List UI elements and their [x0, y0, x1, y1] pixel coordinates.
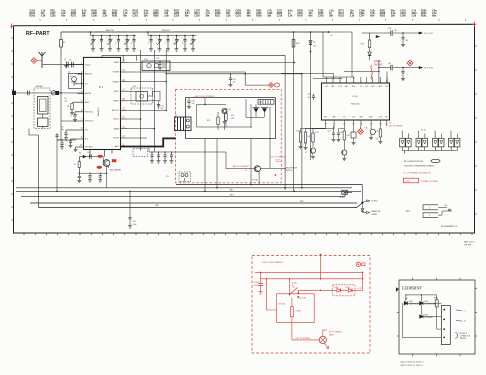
red test diamond right channel	[407, 60, 413, 66]
wire vertical x301.9	[301, 74, 303, 188]
red lamp V2301	[319, 336, 326, 343]
stereo decoder option dashed enclosure (red)	[175, 89, 281, 183]
wire right out	[393, 67, 419, 69]
resistor R500	[435, 300, 438, 307]
transistor Q6 muting	[254, 166, 260, 172]
left decoupling cluster C12 C13	[56, 133, 58, 140]
transistor Q3	[222, 108, 227, 113]
tuning group FM rail	[148, 35, 197, 37]
connector P1 bracket A	[423, 205, 438, 210]
wire AM box drop	[29, 129, 39, 136]
diode D2 on base rail	[83, 155, 86, 158]
capacitor C1 antenna coupling	[66, 62, 68, 68]
component cluster L5	[353, 126, 355, 132]
IC1 left pin stubs and red pin numbers	[78, 64, 84, 66]
transistor Q11	[342, 150, 347, 155]
electrolytic C47 right out	[384, 67, 391, 69]
LEDPRINT frame tick marks	[412, 278, 414, 280]
red ground arrow below lamp	[325, 344, 329, 349]
wire fmif runs	[127, 100, 161, 102]
wire agc2 run	[127, 118, 141, 120]
red wire second rail	[261, 278, 363, 280]
wire decoder drops to bus	[204, 139, 206, 192]
resistor R30	[301, 126, 326, 132]
wire afout run	[127, 109, 167, 111]
wire drops to IF can	[122, 55, 124, 61]
wire net fmmix	[127, 81, 167, 83]
resistor R7	[78, 157, 80, 162]
svg-text:V501: V501	[424, 301, 428, 303]
wire net vref run	[127, 62, 295, 64]
red inner box	[277, 294, 315, 323]
wire vertical feed x323	[322, 32, 324, 77]
svg-text:SWITCH: SWITCH	[460, 338, 467, 340]
wire decoder internal rail	[197, 104, 227, 106]
arrow output right	[362, 211, 369, 213]
ferrite bead FB1	[56, 91, 60, 95]
wire IC1 bottom pin stubs	[89, 150, 91, 157]
capacitor C2 on antenna line	[27, 91, 29, 96]
resistor R12	[225, 113, 227, 121]
red test diamond below IC2	[358, 129, 364, 135]
wire Q2 emitter to bus	[106, 166, 108, 187]
connector X500 pins	[443, 309, 445, 311]
transistor Q2 AM driver	[103, 160, 110, 167]
arrow output up	[362, 200, 370, 203]
connector annotation B	[456, 319, 462, 322]
wire under-IC2 links	[313, 128, 326, 130]
wire qdet through filter	[127, 90, 137, 92]
capacitor C35 below R7	[78, 175, 81, 177]
tuning group AM rail	[91, 35, 137, 37]
wire right-out riser x378.9	[379, 67, 384, 69]
capacitor C7 at pin6	[75, 111, 78, 113]
red switch feed	[289, 279, 291, 295]
IF coil can L4	[142, 61, 170, 71]
capacitor C15	[89, 173, 91, 175]
red voltage key box	[403, 178, 418, 183]
LED V500	[404, 302, 407, 306]
capacitor C16	[99, 173, 101, 175]
wire fuse feed	[60, 57, 62, 93]
wire +B supply bus	[61, 31, 329, 33]
red diode V2304	[348, 288, 352, 292]
node mixer junction	[244, 73, 246, 75]
svg-text:MODEL &: MODEL &	[460, 333, 468, 335]
red voltage box	[112, 159, 117, 162]
svg-text:CONNECTOR: CONNECTOR	[460, 336, 471, 338]
frame right tick marks	[475, 45, 477, 47]
wire pin2 to oscillator box	[78, 73, 82, 75]
thick AF signal bus	[121, 138, 177, 146]
zener D5	[309, 41, 312, 45]
resistor R20	[292, 40, 295, 48]
IC2 bottom pin stubs and red pin numbers	[325, 120, 327, 126]
red jumper wire	[371, 65, 373, 80]
wire x378.9 and x387 to IC2	[378, 68, 380, 83]
wire bus line 4	[21, 192, 352, 196]
vertical riser x140.6	[140, 50, 142, 151]
connector pad left	[12, 91, 16, 95]
svg-text:+ 1: + 1	[463, 310, 466, 312]
capacitor C46 to ground	[402, 33, 404, 38]
wire LF left feed	[344, 57, 379, 72]
LEDPRINT sub-sheet frame	[399, 280, 475, 354]
svg-text:LEDPRINT: LEDPRINT	[402, 286, 423, 291]
wire left riser	[38, 135, 40, 207]
wire bus line 5	[30, 202, 357, 204]
capacitor C20 under mixer wire	[230, 74, 232, 78]
wire riser x57	[56, 140, 58, 191]
vertical riser x166.2	[165, 50, 167, 110]
svg-text:R500: R500	[434, 298, 438, 300]
vertical riser x154.4	[153, 50, 155, 152]
coil L2	[38, 118, 49, 127]
connector bracket note	[455, 333, 457, 339]
pilot coil L3	[258, 100, 274, 105]
red wire entry drop	[320, 255, 322, 279]
red wire top rail	[255, 271, 363, 273]
wire lower left rail	[79, 172, 106, 174]
coil L1	[38, 97, 49, 115]
capacitor C5 at pin1	[70, 64, 78, 66]
connector X500 body	[441, 306, 450, 345]
transistor Q4	[254, 109, 258, 113]
red voltage blob 2	[97, 166, 102, 169]
dashed input component box (left edge)	[179, 172, 191, 182]
capacitor C30	[224, 114, 226, 122]
red switch S2301	[271, 278, 288, 280]
red corner registration mark top-left	[10, 25, 13, 27]
red wire diode rail	[321, 289, 337, 291]
diode D8	[361, 209, 364, 212]
wire FM group feed	[147, 32, 149, 36]
frame left tick marks	[11, 37, 13, 39]
wire vertical feed x293.5	[293, 32, 295, 191]
op-amp IC2 stereo decoder chip body	[322, 83, 390, 120]
red wire antenna test link	[37, 60, 42, 62]
decoder inner shield rectangle	[186, 98, 276, 139]
wire bus line 1	[176, 184, 362, 186]
node main output junction	[361, 202, 363, 204]
wire pin4 from AM antenna line	[83, 93, 84, 94]
red capacitor C2302	[260, 272, 262, 283]
wire left-out feed riser	[370, 33, 384, 40]
wire pin10 ground stub	[76, 146, 78, 148]
wire right-out feed	[362, 32, 384, 68]
main schematic sheet frame	[14, 24, 475, 233]
service option dashed enclosure (red)	[252, 256, 370, 354]
bus junction dots	[204, 191, 206, 193]
transformer T1	[175, 117, 192, 131]
wire pin7 long link	[61, 120, 78, 122]
wire L1 to L2	[42, 114, 44, 118]
wire amin run	[127, 128, 155, 130]
resistor R32	[312, 129, 314, 134]
wire bus line 2	[16, 187, 352, 189]
svg-text:ROOD/RED: ROOD/RED	[424, 317, 433, 319]
capacitor C50 C51	[333, 126, 335, 133]
transistor Q10	[310, 148, 315, 153]
wire vertical feed x310.5	[310, 32, 312, 160]
wire AM antenna line	[14, 92, 84, 94]
op-amp IC1 TDA4500 tuner/IF chip body	[84, 57, 121, 149]
capacitor C34 on base rail	[88, 154, 90, 158]
svg-text:V500: V500	[409, 301, 413, 303]
resistor R3 at pin5	[72, 101, 78, 103]
wire left out	[393, 32, 419, 34]
trimmer CT1	[51, 91, 55, 95]
wire array common rail	[402, 150, 457, 152]
resistor R31	[306, 126, 335, 132]
LED V502	[420, 315, 423, 319]
node J1 junction	[328, 31, 330, 33]
connector annotation +1	[456, 309, 462, 312]
IC1 right pin stubs and red pin numbers	[121, 62, 127, 64]
resistor R34	[379, 126, 381, 129]
dashed component outline below IC1	[133, 149, 148, 157]
wire bus line 6	[39, 203, 363, 208]
table column tick marks	[39, 19, 41, 21]
capacitor C9 at pin9	[71, 138, 78, 140]
IC2 top pin stubs and red pin numbers	[326, 77, 328, 83]
red resistor R2302	[291, 298, 293, 307]
capacitor C29 decoder input	[188, 98, 190, 101]
wire Q2 base rail	[79, 156, 103, 158]
wire cap row feed	[148, 147, 150, 153]
wire pin3 link	[74, 83, 78, 85]
wire net vtune run to mixer	[127, 72, 246, 85]
red wire lamp link	[292, 339, 319, 341]
resistor R22	[368, 40, 370, 48]
wire Q6 collector link	[260, 168, 285, 170]
capacitor C53	[370, 126, 372, 130]
resistor R33	[343, 126, 345, 131]
ceramic filter FL1 dashed enclosure	[131, 88, 153, 104]
wire AF link bus	[165, 73, 302, 75]
LED V501	[420, 302, 423, 306]
wire Q6 base link	[172, 151, 226, 153]
wire bus line 3	[16, 190, 361, 192]
red voltage blob 1	[98, 155, 103, 158]
LEDPRINT wires	[406, 295, 437, 302]
electrolytic C45 left out	[384, 32, 391, 34]
frame bottom tick marks	[23, 233, 25, 235]
capacitor C21 near IC1 top right	[159, 60, 161, 63]
capacitor C42 beside IC2	[313, 94, 315, 97]
capacitor C19 on riser	[157, 104, 160, 106]
wire decoder mid rail	[197, 126, 252, 128]
transistor Q5	[263, 109, 267, 113]
svg-text:+A62 2 2 V501 4 1 V: +A62 2 2 V501 4 1 V502 5 2	[400, 364, 423, 367]
wire decoder right links	[250, 104, 252, 127]
wire vertical x285.1	[284, 74, 286, 190]
wire top bus to LF stage	[329, 32, 353, 57]
triangle marker	[396, 288, 398, 292]
resistor R13	[217, 117, 219, 125]
oscillator sub-circuit box Q1	[69, 73, 82, 88]
AM antenna assembly dashed enclosure	[34, 88, 50, 129]
capacitor C48 to ground	[402, 68, 404, 72]
antenna ANT1	[39, 52, 46, 68]
fuse F1	[60, 32, 62, 40]
wire mute run	[127, 137, 148, 139]
capacitor row C24-C27	[149, 151, 172, 153]
wire AM group feed	[90, 32, 92, 36]
red left return wire	[267, 279, 277, 310]
wire bracket links	[438, 206, 447, 208]
wire antenna lead	[42, 64, 84, 66]
wire IC2 upper links	[281, 73, 334, 79]
ceramic resonator X2	[342, 190, 348, 194]
red diode V2303	[337, 288, 341, 292]
red corner registration mark top-right	[472, 23, 477, 25]
wire pin8 link with cap C8	[66, 129, 78, 131]
red test diamond D-A	[31, 58, 37, 64]
red earpiece symbol	[269, 83, 274, 88]
red power icon	[356, 262, 360, 266]
wire net pin20 top run	[102, 55, 285, 74]
connector P1 bracket B	[423, 213, 438, 218]
capacitor C55 bus decoupling	[129, 191, 131, 217]
svg-text:- B: - B	[463, 321, 466, 323]
svg-text:+A61 2 3 V500 4 1 V: +A61 2 3 V500 4 1 V5020 5 1	[400, 361, 424, 364]
red wire switch to diode rail	[298, 292, 320, 294]
LED D6 stereo indicator	[368, 52, 372, 56]
red diode sub-box	[333, 285, 355, 296]
wire earpiece feed	[245, 84, 268, 86]
